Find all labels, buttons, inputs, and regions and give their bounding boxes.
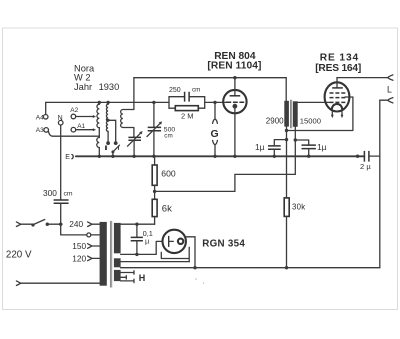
trimmer capacitor	[128, 131, 143, 156]
terminal A1	[71, 123, 96, 132]
svg-text:220 V: 220 V	[6, 249, 32, 260]
mains plug top	[16, 222, 20, 227]
node rectifier output on rail	[193, 266, 196, 269]
svg-text:300: 300	[43, 188, 57, 198]
node 30k on HT rail	[285, 266, 288, 269]
terminal E	[65, 154, 73, 161]
svg-text:30k: 30k	[292, 202, 305, 211]
svg-text:150: 150	[72, 241, 86, 251]
svg-text:[REN 1104]: [REN 1104]	[207, 60, 261, 71]
tap 240	[69, 219, 99, 229]
tuning coil L2	[106, 102, 108, 141]
reaction coil L3	[121, 78, 134, 138]
heater winding H stubs	[121, 271, 146, 283]
node 500cm bottom on bus	[152, 155, 155, 158]
svg-text:A2: A2	[70, 107, 78, 114]
RGN354 filament legs	[161, 247, 189, 261]
jack L upper	[388, 75, 393, 80]
wave switch lever	[111, 145, 119, 156]
antenna coil L1 (tapped primary)	[97, 102, 100, 156]
svg-text:2 µ: 2 µ	[360, 162, 371, 171]
HV top wire	[121, 223, 155, 225]
tap 150	[72, 241, 99, 251]
wire RGN354 cathode to HT rail	[185, 237, 195, 268]
wire 15000 bottom down	[294, 127, 296, 175]
node 1u left bottom on bus	[273, 155, 276, 158]
node switch pivot on bus	[111, 155, 114, 158]
wire 15000 top to RE134 grid	[295, 101, 329, 103]
svg-text:15000: 15000	[300, 116, 321, 125]
switch contact II	[106, 141, 110, 145]
selector socket	[87, 233, 91, 237]
wire mains bottom to transformer	[21, 282, 100, 284]
node cap tap junction	[294, 138, 297, 141]
wire RE134 anode to jack L	[337, 77, 388, 79]
capacitor 2u	[356, 151, 380, 171]
wire anode line	[134, 77, 286, 79]
mains plug bottom	[16, 281, 20, 286]
svg-text:250: 250	[169, 87, 181, 94]
svg-text:6k: 6k	[162, 203, 172, 214]
grid leak resistor 2M	[169, 106, 205, 121]
node: L2 tap	[107, 119, 110, 122]
resistor 600	[152, 156, 176, 191]
svg-text:µ: µ	[145, 236, 150, 245]
wire L2 tap to contact I	[108, 120, 116, 141]
capacitor 1u left	[255, 140, 287, 157]
wire bias stepped	[155, 174, 296, 191]
tap 120	[72, 253, 99, 263]
switch contact I	[114, 141, 118, 145]
HT rail bottom	[121, 267, 380, 269]
svg-text:L: L	[387, 84, 392, 94]
node 1u left top	[285, 138, 288, 141]
node mains/selector junction	[59, 223, 62, 226]
node grid return junction	[285, 129, 288, 132]
jack L lower	[388, 98, 393, 103]
svg-text:W 2: W 2	[74, 73, 91, 83]
svg-text:cm: cm	[164, 133, 172, 140]
node: G tap	[213, 101, 216, 104]
capacitor 0,1u	[131, 224, 153, 254]
svg-text:A4: A4	[36, 114, 44, 121]
power transformer	[100, 221, 121, 288]
node anode junction	[233, 76, 236, 79]
capacitor 1u right	[295, 140, 326, 156]
svg-text:2 M: 2 M	[181, 111, 194, 120]
grid capacitor 250cm	[169, 87, 205, 109]
node 1u right bottom on bus	[307, 155, 310, 158]
node: L1 bottom on bus	[98, 155, 101, 158]
svg-text:240: 240	[69, 219, 83, 229]
terminal A2	[70, 107, 96, 119]
wire RE134 grid return	[287, 97, 353, 131]
variable capacitor 500cm	[147, 102, 175, 156]
svg-text:[RES 164]: [RES 164]	[315, 63, 361, 74]
wire jack to HT rail	[380, 100, 388, 268]
resistor 6k	[152, 191, 172, 224]
svg-text:E: E	[65, 154, 70, 161]
svg-text:Jahr: Jahr	[74, 82, 92, 92]
node: coil L2 top	[106, 101, 109, 104]
HV bottom wire	[121, 241, 163, 254]
title text Nora W2 Jahr 1930	[74, 63, 119, 92]
svg-text:1µ: 1µ	[317, 142, 327, 152]
detector tube REN804	[207, 51, 261, 156]
svg-text:2900: 2900	[266, 116, 284, 125]
svg-text:1µ: 1µ	[255, 142, 265, 152]
interstage transformer 2900/15000	[266, 100, 321, 128]
wire grid line	[46, 101, 229, 103]
wire anode to interstage transformer	[285, 78, 287, 101]
svg-text:120: 120	[72, 253, 86, 263]
node: 500cm junction	[152, 101, 155, 104]
svg-text:cm: cm	[192, 87, 200, 94]
svg-text:N: N	[58, 115, 63, 122]
svg-text:1930: 1930	[99, 82, 120, 92]
svg-text:A3: A3	[36, 127, 44, 134]
node REN804 filament on bus	[233, 155, 236, 158]
voltage selector wire	[61, 224, 100, 235]
node G jack on bus	[213, 155, 216, 158]
terminal A4	[36, 102, 48, 121]
output tube RE134	[315, 53, 361, 119]
mains switch	[21, 220, 62, 227]
terminal A3	[36, 127, 99, 136]
terminal N	[58, 115, 63, 200]
node 600/6k junction	[153, 190, 156, 193]
svg-text:RGN 354: RGN 354	[202, 239, 245, 250]
node: coil L1 top	[98, 101, 101, 104]
svg-text:cm: cm	[64, 191, 73, 198]
ground bus	[76, 155, 365, 157]
node trimmer bottom on bus	[132, 155, 135, 158]
rectifier tube RGN354	[163, 230, 246, 253]
svg-text:600: 600	[161, 168, 176, 178]
filament winding wire	[121, 261, 190, 263]
jack G	[211, 102, 219, 156]
svg-text:G: G	[211, 128, 219, 140]
resistor 30k	[284, 198, 305, 268]
wire 2900 bottom down to 30k	[286, 127, 288, 198]
capacitor 300cm	[43, 188, 73, 224]
svg-text:H: H	[139, 273, 146, 283]
